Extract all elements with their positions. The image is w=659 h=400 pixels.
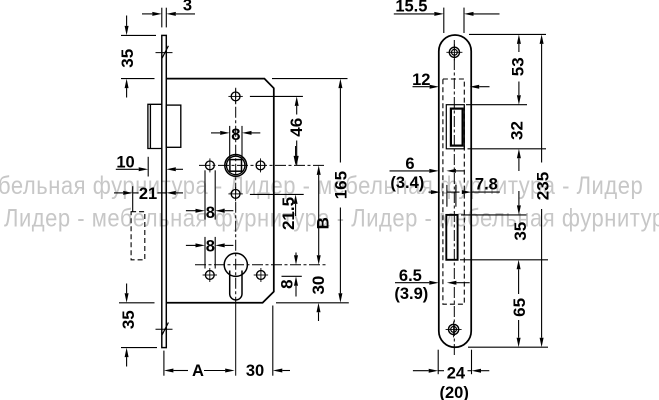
follower outer ring xyxy=(225,155,247,177)
vertical centerline (left view) xyxy=(235,88,237,303)
svg-text:15.5: 15.5 xyxy=(395,0,427,16)
svg-text:12: 12 xyxy=(412,71,430,89)
dim 21 extension line xyxy=(132,186,134,212)
dim 35 rv top arrow (outside) xyxy=(518,191,520,205)
dim 8 right extension line xyxy=(282,275,302,277)
dim 65 extension line top xyxy=(460,259,548,261)
dim 3 extension lines xyxy=(161,8,163,28)
svg-text:46: 46 xyxy=(287,118,306,137)
dim 46 extension line xyxy=(250,95,303,97)
plate centerline xyxy=(453,40,455,356)
dim 35 rv extension line xyxy=(461,214,527,216)
svg-text:8: 8 xyxy=(278,279,297,288)
dim 6.5 arrows xyxy=(395,282,429,284)
svg-text:8: 8 xyxy=(231,126,240,144)
follower left fixing hole xyxy=(206,161,215,170)
dim 8 lower arrows xyxy=(186,244,196,246)
dim 46 arrows xyxy=(295,96,299,106)
dim 15.5 arrows xyxy=(394,13,435,15)
deadbolt opening (thick) xyxy=(446,215,457,260)
svg-text:8: 8 xyxy=(206,204,215,222)
follower horizontal centerline xyxy=(199,164,325,166)
svg-text:3: 3 xyxy=(183,0,192,14)
svg-text:35: 35 xyxy=(511,222,530,241)
cylinder right fixing hole xyxy=(257,271,266,280)
latch bolt face (thick) xyxy=(451,109,463,146)
svg-text:6.5: 6.5 xyxy=(399,267,422,285)
dim 165 bottom extension line xyxy=(276,302,349,304)
svg-text:10: 10 xyxy=(116,154,134,172)
latch bolt head (protruding) xyxy=(148,104,162,148)
dim 65/235 extension line bottom xyxy=(468,346,548,348)
svg-text:35: 35 xyxy=(119,310,138,329)
svg-text:53: 53 xyxy=(509,57,528,76)
latch opening xyxy=(446,105,464,149)
dim 65 top arrow (up, below line) xyxy=(517,260,521,270)
cylinder left fixing hole xyxy=(205,271,214,280)
dim 10 extension line xyxy=(147,157,149,177)
svg-text:21: 21 xyxy=(139,185,157,203)
dim 32 bottom arrow (outside) xyxy=(517,149,521,159)
dim 53 extension line top xyxy=(469,33,546,35)
dim 30 right arrows xyxy=(317,303,321,313)
dim 3 arrows xyxy=(142,13,152,15)
follower square spindle hole xyxy=(230,160,242,172)
dim 30 bottom arrow xyxy=(273,369,283,373)
dim 235 arrows xyxy=(540,34,544,44)
dim 7.8 extension stubs xyxy=(446,185,448,207)
euro cylinder stem xyxy=(230,271,242,300)
deadbolt (dashed, retracted) xyxy=(131,212,145,260)
top screw hole (left view) xyxy=(231,92,240,101)
lock case body outline xyxy=(166,79,273,303)
follower inner ring xyxy=(227,156,245,174)
svg-text:A: A xyxy=(192,362,204,380)
plate bottom screw hole xyxy=(449,324,459,334)
dim 24 extension lines xyxy=(437,350,439,375)
dim 32 extension lines xyxy=(466,104,527,106)
faceplate break tick lower xyxy=(156,328,173,330)
dim A extension lines xyxy=(163,351,165,376)
svg-text:165: 165 xyxy=(331,171,350,199)
svg-text:30: 30 xyxy=(309,276,328,295)
dim 8 upper extension lines xyxy=(204,170,206,219)
dim 8 follower arrows xyxy=(211,132,220,134)
dim 21.5 arrows xyxy=(295,146,297,156)
svg-text:65: 65 xyxy=(510,298,529,317)
dim 6 arrows xyxy=(390,170,430,172)
svg-text:24: 24 xyxy=(447,364,466,382)
svg-text:7.8: 7.8 xyxy=(475,175,498,193)
dim A arrows xyxy=(164,369,174,373)
dim 8 lower extension lines xyxy=(204,237,206,269)
svg-text:(3.4): (3.4) xyxy=(390,174,424,192)
dim 165 top extension line xyxy=(272,78,348,80)
svg-text:(3.9): (3.9) xyxy=(394,285,428,303)
dim 8 right arrows xyxy=(295,253,297,256)
svg-text:35: 35 xyxy=(118,49,137,68)
latch bolt body (inside case) xyxy=(166,105,181,147)
dim B arrows xyxy=(317,165,321,175)
dim 35 top arrows xyxy=(126,16,128,26)
dim 15.5 extension lines xyxy=(443,8,445,33)
svg-text:30: 30 xyxy=(246,362,264,380)
cylinder horizontal centerline xyxy=(195,264,326,266)
svg-text:32: 32 xyxy=(508,121,527,140)
svg-text:8: 8 xyxy=(206,237,215,255)
dim 7.8 arrows xyxy=(429,191,432,193)
svg-text:21.5: 21.5 xyxy=(279,197,298,230)
svg-text:B: B xyxy=(314,217,333,229)
dim 10 arrows xyxy=(116,168,139,170)
dim 35 top extension lines xyxy=(121,34,156,36)
follower right fixing hole xyxy=(256,161,265,170)
dim 8 follower extension lines xyxy=(229,126,231,158)
middle screw hole (left view) xyxy=(231,190,240,199)
dim 8 upper arrows xyxy=(186,210,196,212)
dim 12 arrows xyxy=(413,86,430,88)
dim 165 arrows xyxy=(338,79,342,89)
dim 65 line and bottom arrow xyxy=(518,269,520,294)
striking plate (front view) xyxy=(439,35,471,347)
middle hole extension line xyxy=(250,193,304,195)
lock case hidden outline (dashed) xyxy=(443,79,464,304)
dim 35 bottom arrows xyxy=(126,284,128,294)
dim 53 arrows xyxy=(517,34,521,44)
svg-text:(20): (20) xyxy=(440,384,469,400)
dim 24 arrows xyxy=(413,370,429,372)
plate top screw hole xyxy=(449,47,459,57)
svg-text:235: 235 xyxy=(534,172,553,200)
dim 21 arrows xyxy=(114,192,123,194)
euro cylinder circle xyxy=(224,253,247,276)
dim 35 bottom extension lines xyxy=(119,302,155,304)
faceplate break tick upper xyxy=(156,52,173,54)
faceplate (left view, side) xyxy=(162,35,167,347)
svg-text:6: 6 xyxy=(405,155,414,173)
